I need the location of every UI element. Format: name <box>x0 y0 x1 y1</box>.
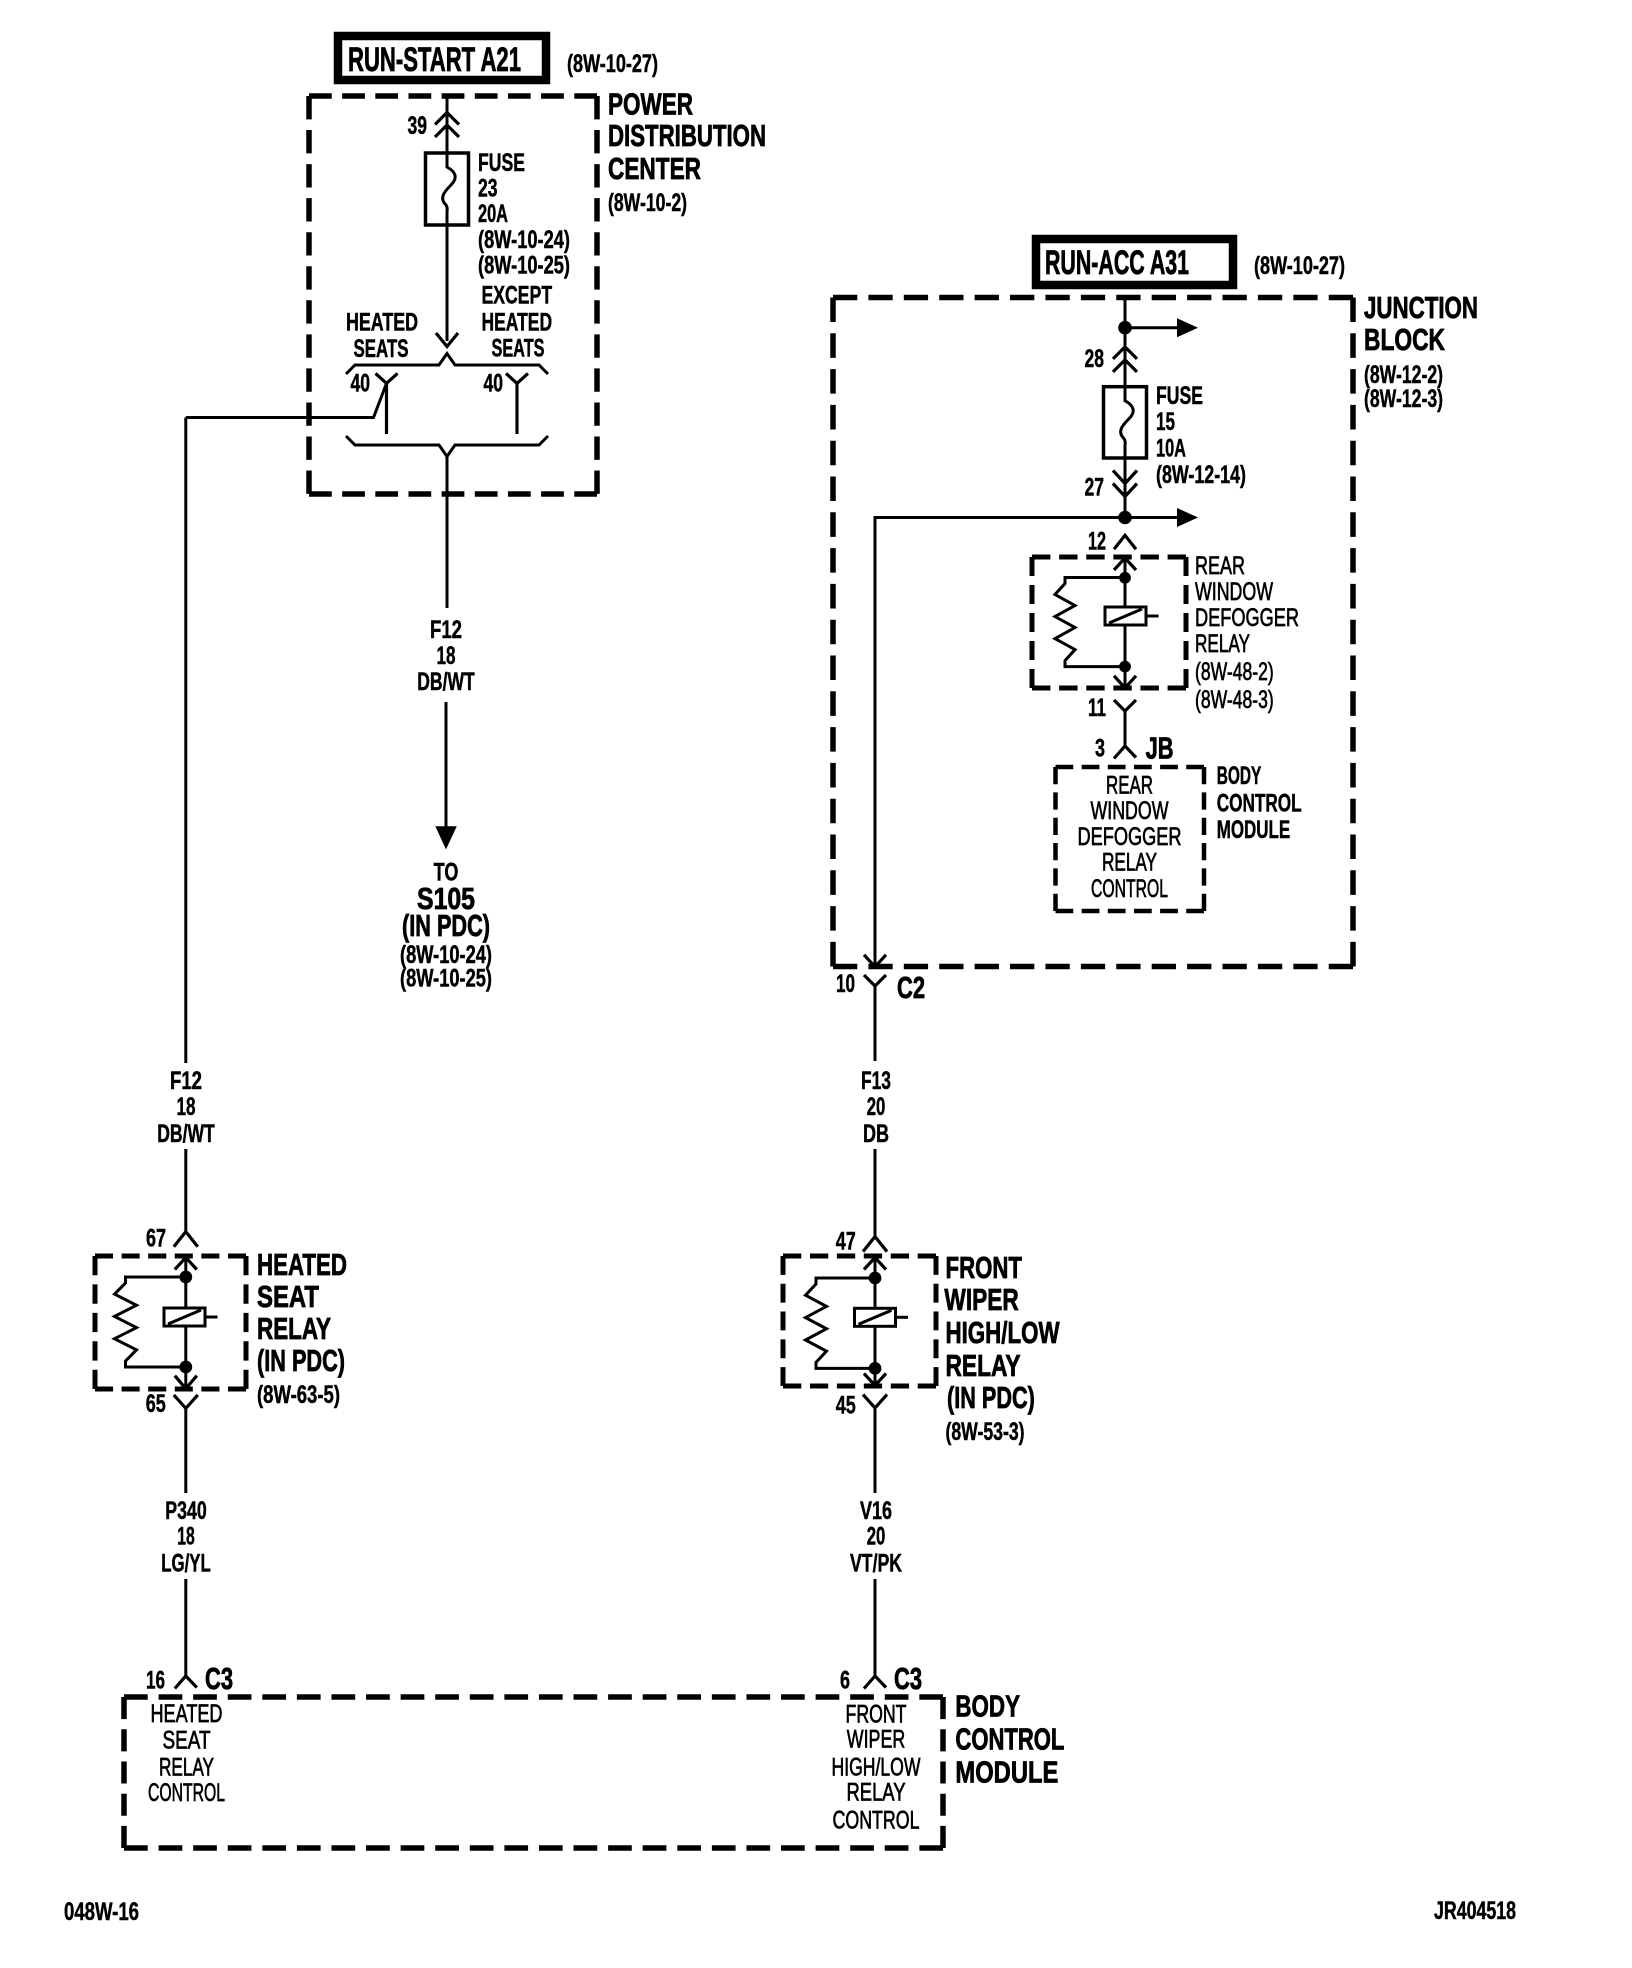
svg-text:C3: C3 <box>894 1661 922 1696</box>
wire: PDC top border to connector 39 <box>446 96 449 153</box>
svg-text:BODY: BODY <box>1217 762 1262 790</box>
svg-text:(8W-10-27): (8W-10-27) <box>1254 252 1345 280</box>
connector 12 chevron <box>1114 535 1136 549</box>
svg-text:(8W-10-2): (8W-10-2) <box>608 189 687 217</box>
svg-text:18: 18 <box>177 1093 196 1121</box>
svg-text:DEFOGGER: DEFOGGER <box>1195 604 1299 632</box>
svg-text:RELAY: RELAY <box>1102 849 1157 877</box>
svg-text:LG/YL: LG/YL <box>161 1550 211 1578</box>
branch arrow mid right <box>1125 516 1177 519</box>
fuse 23 20A symbol <box>426 153 469 225</box>
wire: P340 label to BCM pin 16 <box>184 1579 187 1676</box>
body control module inner dashed box <box>1056 765 1205 770</box>
front wiper high/low relay dashed box <box>783 1254 936 1259</box>
connector C3 pin 16 fork <box>175 1676 197 1689</box>
junction dot defogger top <box>1119 572 1131 584</box>
svg-text:23: 23 <box>478 175 498 203</box>
wire: F12 label down to relay pin 67 <box>184 1149 187 1232</box>
wire: branch to C2 horizontal <box>875 518 1125 967</box>
svg-text:20A: 20A <box>478 200 508 228</box>
svg-text:3: 3 <box>1095 735 1105 763</box>
svg-text:F13: F13 <box>861 1067 891 1095</box>
svg-text:SEATS: SEATS <box>492 335 545 363</box>
junction dot wiper relay bottom <box>869 1362 882 1375</box>
connector 67 chevron <box>174 1232 198 1247</box>
connector C2 Y below junction block <box>864 975 886 986</box>
wire: relay 65 to P340 label <box>184 1408 187 1493</box>
connector 39 double chevron <box>435 113 459 125</box>
svg-text:HIGH/LOW: HIGH/LOW <box>946 1315 1061 1350</box>
svg-text:20: 20 <box>867 1093 886 1121</box>
svg-text:WIPER: WIPER <box>944 1282 1018 1317</box>
connector chevron inside wiper relay top <box>864 1258 886 1270</box>
connector chevron C2 at junction block bottom <box>864 955 886 967</box>
svg-text:C2: C2 <box>897 970 925 1005</box>
wire through heated seat relay <box>184 1258 187 1389</box>
connector 45 Y below wiper relay <box>863 1395 887 1409</box>
front wiper relay resistor <box>806 1278 876 1368</box>
svg-text:18: 18 <box>177 1523 195 1551</box>
svg-text:JUNCTION: JUNCTION <box>1364 290 1478 325</box>
svg-text:(8W-63-5): (8W-63-5) <box>257 1381 340 1409</box>
feed title box RUN-ACC A31 <box>1036 239 1233 285</box>
svg-text:18: 18 <box>437 642 456 670</box>
connector JB pin 3 fork <box>1114 746 1136 759</box>
svg-text:RELAY: RELAY <box>159 1754 214 1782</box>
connector 11 Y below defogger relay <box>1114 700 1136 711</box>
svg-text:RELAY: RELAY <box>257 1311 331 1346</box>
svg-text:HIGH/LOW: HIGH/LOW <box>832 1753 921 1781</box>
fuse 15 10A symbol <box>1104 387 1147 458</box>
wire: left vertical down to F12 label <box>184 418 187 1064</box>
svg-text:(8W-12-3): (8W-12-3) <box>1364 385 1443 413</box>
svg-text:10: 10 <box>836 970 855 998</box>
svg-text:DB/WT: DB/WT <box>157 1120 215 1148</box>
svg-text:11: 11 <box>1088 694 1106 722</box>
connector chevron inside defogger relay bottom <box>1114 676 1136 688</box>
svg-text:27: 27 <box>1085 474 1105 502</box>
svg-text:EXCEPT: EXCEPT <box>482 282 553 310</box>
wire: splice to F12 label (crosses PDC border) <box>446 457 449 609</box>
svg-text:FUSE: FUSE <box>1156 382 1203 410</box>
svg-text:CONTROL: CONTROL <box>955 1722 1064 1757</box>
junction node dot top <box>1118 321 1132 335</box>
wire through wiper relay <box>874 1258 877 1386</box>
svg-text:6: 6 <box>840 1667 850 1695</box>
body control module dashed box (bottom) <box>124 1694 943 1700</box>
wire: F12 label to arrow S105 <box>445 702 448 830</box>
front wiper relay coil <box>855 1308 896 1326</box>
connector chevron above splice bracket <box>436 333 458 347</box>
connector chevron inside relay bottom <box>175 1376 197 1389</box>
heated seat relay dashed box <box>95 1254 246 1259</box>
rear window defogger relay dashed box <box>1032 555 1186 560</box>
wire: pin 11 to pin 3 <box>1124 711 1127 746</box>
connector chevron inside relay top <box>175 1258 197 1270</box>
svg-text:CONTROL: CONTROL <box>148 1779 225 1807</box>
junction node dot 2 <box>1118 511 1132 525</box>
svg-text:(8W-12-14): (8W-12-14) <box>1156 461 1246 489</box>
svg-text:SEAT: SEAT <box>163 1727 211 1755</box>
defogger relay resistor <box>1055 578 1125 667</box>
svg-text:V16: V16 <box>860 1497 892 1525</box>
svg-text:(8W-10-24): (8W-10-24) <box>478 226 570 254</box>
connector 28 double chevron <box>1113 347 1137 359</box>
connector 65 Y below relay <box>174 1395 198 1409</box>
svg-text:DB: DB <box>863 1120 889 1148</box>
svg-text:(IN PDC): (IN PDC) <box>947 1380 1035 1415</box>
wire: heated seats branch diagonal and horizontal <box>186 383 387 417</box>
junction dot defogger bottom <box>1119 661 1131 673</box>
svg-text:WINDOW: WINDOW <box>1195 578 1273 606</box>
splice bracket lower (bus merge) <box>346 436 548 457</box>
svg-text:FRONT: FRONT <box>846 1700 907 1728</box>
svg-text:12: 12 <box>1088 528 1106 556</box>
svg-text:JB: JB <box>1146 731 1174 766</box>
svg-text:DEFOGGER: DEFOGGER <box>1078 823 1182 851</box>
svg-text:048W-16: 048W-16 <box>64 1898 139 1926</box>
connector 40 left Y with stub <box>376 373 398 383</box>
splice bracket upper (bus split) <box>346 354 548 375</box>
svg-text:(8W-10-25): (8W-10-25) <box>478 252 570 280</box>
svg-text:WINDOW: WINDOW <box>1091 797 1169 825</box>
svg-text:CONTROL: CONTROL <box>1091 875 1168 903</box>
svg-text:HEATED: HEATED <box>257 1247 347 1282</box>
power distribution center dashed box <box>309 93 597 99</box>
wire: C2 to F13 label <box>874 986 877 1061</box>
svg-text:FRONT: FRONT <box>946 1250 1023 1285</box>
junction dot relay top <box>179 1271 192 1284</box>
svg-text:SEATS: SEATS <box>354 335 409 363</box>
svg-text:RUN-ACC A31: RUN-ACC A31 <box>1045 244 1189 282</box>
wire: junction block top to fuse 15 <box>1124 298 1127 387</box>
wire: fuse 23 down to splice connector <box>446 225 449 341</box>
svg-text:40: 40 <box>351 369 371 397</box>
junction block dashed box <box>833 295 1353 301</box>
svg-text:40: 40 <box>484 369 504 397</box>
svg-text:(8W-10-25): (8W-10-25) <box>400 964 492 992</box>
svg-text:39: 39 <box>408 112 428 140</box>
svg-text:(IN PDC): (IN PDC) <box>402 908 490 943</box>
connector 40 right Y with stub <box>506 373 528 383</box>
svg-text:REAR: REAR <box>1106 772 1153 800</box>
connector 47 chevron <box>863 1237 887 1252</box>
svg-text:F12: F12 <box>170 1067 202 1095</box>
svg-text:65: 65 <box>146 1390 166 1418</box>
svg-text:(8W-48-3): (8W-48-3) <box>1195 686 1274 714</box>
connector 27 double chevron down <box>1113 471 1137 484</box>
svg-text:WIPER: WIPER <box>847 1725 905 1753</box>
svg-text:CONTROL: CONTROL <box>833 1807 920 1835</box>
connector C3 pin 6 fork <box>864 1676 886 1689</box>
svg-text:HEATED: HEATED <box>151 1700 223 1728</box>
wire through defogger relay <box>1124 558 1127 688</box>
defogger relay coil <box>1105 607 1146 625</box>
svg-text:RELAY: RELAY <box>1195 630 1250 658</box>
svg-text:SEAT: SEAT <box>257 1279 319 1314</box>
svg-text:CENTER: CENTER <box>608 151 701 186</box>
svg-text:RELAY: RELAY <box>847 1778 906 1806</box>
arrow to splice S105 <box>435 826 457 849</box>
svg-text:(8W-48-2): (8W-48-2) <box>1195 658 1274 686</box>
wire: relay 45 to V16 label <box>874 1408 877 1493</box>
svg-text:CONTROL: CONTROL <box>1217 790 1302 818</box>
svg-text:RUN-START A21: RUN-START A21 <box>348 41 521 79</box>
connector chevron inside wiper relay bottom <box>864 1374 886 1386</box>
svg-text:(IN PDC): (IN PDC) <box>257 1343 345 1378</box>
svg-text:10A: 10A <box>1156 435 1186 463</box>
junction dot wiper relay top <box>869 1272 882 1285</box>
svg-text:20: 20 <box>867 1523 886 1551</box>
svg-text:MODULE: MODULE <box>955 1755 1058 1790</box>
svg-text:MODULE: MODULE <box>1217 816 1291 844</box>
svg-text:VT/PK: VT/PK <box>850 1550 902 1578</box>
svg-text:HEATED: HEATED <box>482 309 553 337</box>
svg-text:(8W-10-27): (8W-10-27) <box>567 50 658 78</box>
svg-text:POWER: POWER <box>608 87 693 122</box>
wire: fuse 15 to node dot 2 <box>1124 458 1127 518</box>
junction dot relay bottom <box>179 1361 192 1374</box>
wire: V16 label to BCM pin 6 <box>874 1579 877 1676</box>
branch arrow top right <box>1125 326 1177 329</box>
svg-text:(8W-53-3): (8W-53-3) <box>946 1418 1025 1446</box>
feed title box RUN-START A21 <box>338 36 546 80</box>
svg-text:F12: F12 <box>430 616 462 644</box>
heated seat relay coil <box>164 1308 205 1326</box>
svg-text:DB/WT: DB/WT <box>417 668 475 696</box>
svg-text:28: 28 <box>1085 345 1105 373</box>
svg-text:15: 15 <box>1156 408 1175 436</box>
svg-text:C3: C3 <box>205 1661 233 1696</box>
connector chevron inside defogger relay top <box>1114 558 1136 570</box>
svg-text:16: 16 <box>146 1667 165 1695</box>
svg-text:DISTRIBUTION: DISTRIBUTION <box>608 118 766 153</box>
svg-text:67: 67 <box>146 1225 166 1253</box>
svg-text:BODY: BODY <box>955 1689 1020 1724</box>
svg-text:FUSE: FUSE <box>478 149 525 177</box>
svg-text:HEATED: HEATED <box>346 309 418 337</box>
heated seat relay resistor <box>115 1277 186 1367</box>
svg-text:JR404518: JR404518 <box>1434 1897 1516 1925</box>
svg-text:45: 45 <box>836 1392 856 1420</box>
svg-text:47: 47 <box>836 1228 856 1256</box>
svg-text:BLOCK: BLOCK <box>1364 322 1445 357</box>
svg-text:RELAY: RELAY <box>946 1348 1021 1383</box>
svg-text:P340: P340 <box>165 1497 206 1525</box>
wire: F13 label to relay pin 47 <box>874 1149 877 1237</box>
svg-text:REAR: REAR <box>1195 552 1245 580</box>
